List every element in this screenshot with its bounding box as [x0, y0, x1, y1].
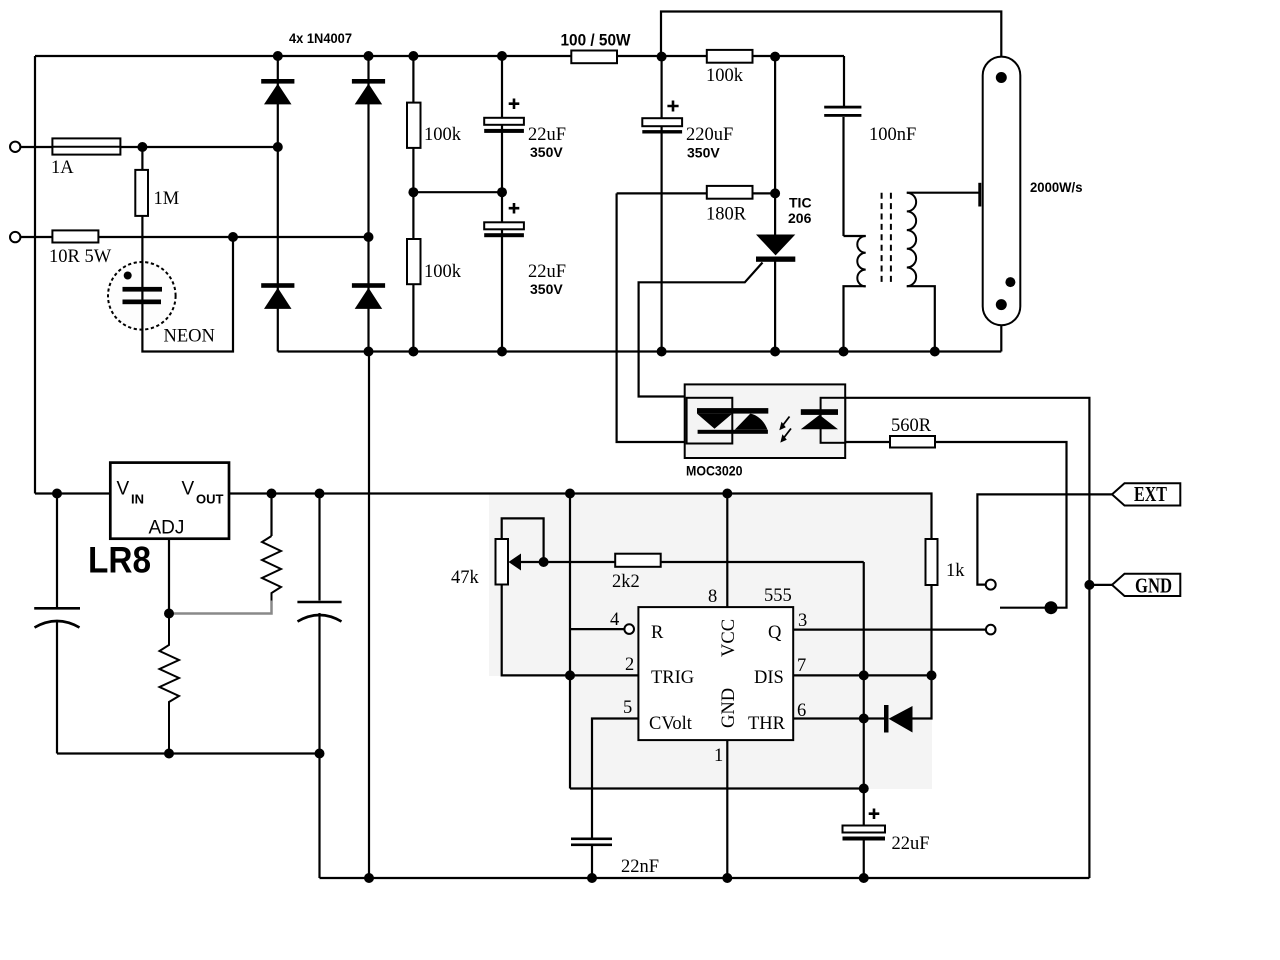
svg-text:2000W/s: 2000W/s — [1030, 179, 1083, 195]
svg-text:1A: 1A — [51, 158, 74, 178]
svg-text:MOC3020: MOC3020 — [686, 463, 743, 479]
svg-text:1: 1 — [714, 746, 723, 766]
svg-text:180R: 180R — [706, 205, 747, 225]
svg-text:22uF: 22uF — [892, 834, 930, 854]
svg-text:47k: 47k — [451, 568, 480, 588]
svg-text:22uF: 22uF — [528, 262, 566, 282]
svg-text:22uF: 22uF — [528, 125, 566, 145]
svg-text:4: 4 — [610, 610, 619, 630]
svg-text:8: 8 — [708, 587, 717, 607]
svg-text:206: 206 — [788, 210, 812, 226]
svg-text:2k2: 2k2 — [612, 572, 640, 592]
svg-text:CVolt: CVolt — [649, 714, 693, 734]
svg-text:350V: 350V — [530, 144, 563, 160]
svg-text:100k: 100k — [424, 125, 462, 145]
svg-text:R: R — [651, 623, 664, 643]
svg-text:100k: 100k — [706, 66, 744, 86]
svg-text:3: 3 — [798, 611, 807, 631]
svg-text:NEON: NEON — [164, 327, 215, 347]
svg-text:560R: 560R — [891, 416, 932, 436]
svg-text:TIC: TIC — [789, 195, 812, 211]
svg-text:IN: IN — [131, 492, 144, 507]
svg-text:5: 5 — [623, 698, 632, 718]
svg-text:350V: 350V — [687, 145, 720, 161]
svg-text:555: 555 — [764, 586, 792, 606]
svg-text:VCC: VCC — [719, 619, 739, 657]
svg-text:TRIG: TRIG — [651, 668, 694, 688]
svg-text:4x 1N4007: 4x 1N4007 — [289, 30, 352, 46]
svg-text:22nF: 22nF — [621, 857, 659, 877]
svg-text:OUT: OUT — [196, 492, 224, 507]
svg-text:1M: 1M — [154, 189, 180, 209]
svg-text:100k: 100k — [424, 262, 462, 282]
svg-text:ADJ: ADJ — [149, 518, 185, 539]
svg-text:V: V — [117, 479, 130, 500]
svg-text:2: 2 — [625, 655, 634, 675]
svg-text:100 / 50W: 100 / 50W — [561, 32, 631, 50]
svg-text:V: V — [182, 479, 195, 500]
svg-text:THR: THR — [748, 714, 786, 734]
svg-text:1k: 1k — [946, 561, 965, 581]
svg-text:LR8: LR8 — [88, 540, 151, 581]
svg-text:10R 5W: 10R 5W — [49, 247, 112, 267]
svg-text:100nF: 100nF — [869, 125, 916, 145]
svg-text:GND: GND — [1135, 574, 1172, 598]
svg-text:7: 7 — [797, 656, 806, 676]
svg-text:6: 6 — [797, 701, 806, 721]
svg-text:GND: GND — [719, 688, 739, 728]
svg-text:DIS: DIS — [754, 668, 784, 688]
svg-text:350V: 350V — [530, 281, 563, 297]
svg-text:220uF: 220uF — [686, 125, 733, 145]
svg-text:EXT: EXT — [1134, 482, 1167, 506]
svg-text:Q: Q — [768, 623, 782, 643]
